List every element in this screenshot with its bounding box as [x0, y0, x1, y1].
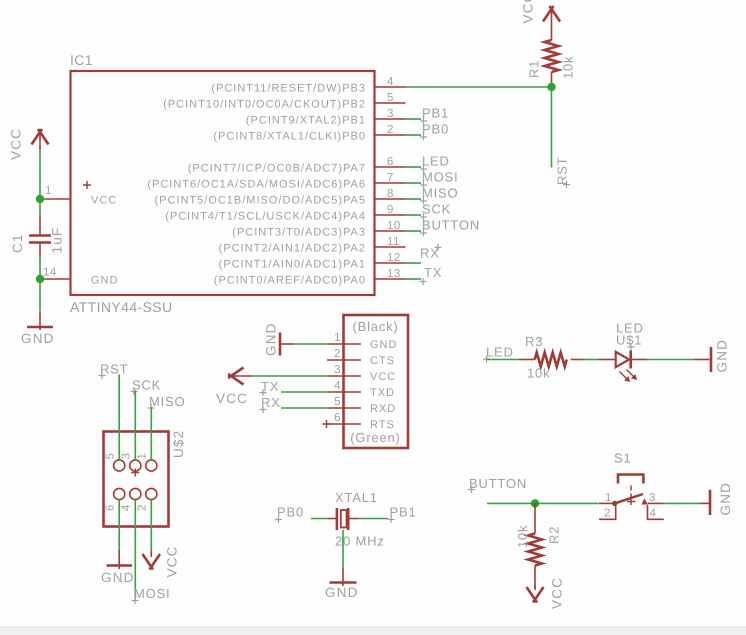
wire XTAL1 to GND: [342, 530, 344, 586]
wire pin1 junction to C1: [39, 199, 41, 235]
svg-text:2: 2: [604, 508, 611, 520]
pin 9 PA4 of IC1: [165, 204, 405, 223]
node MOSI label at U$2: [132, 586, 171, 604]
switch S1: [599, 451, 664, 520]
svg-text:3: 3: [334, 364, 341, 376]
node PB0 label at XTAL1: [275, 505, 304, 524]
connector J1 FTDI body: [344, 315, 409, 448]
svg-text:TX: TX: [261, 379, 279, 394]
svg-text:(PCINT7/ICP/OC0B/ADC7)PA7: (PCINT7/ICP/OC0B/ADC7)PA7: [188, 163, 366, 175]
svg-text:(Black): (Black): [352, 319, 398, 334]
wire R1 to junction: [551, 72, 553, 87]
ground GND at J1 pin1: [264, 322, 281, 356]
svg-text:7: 7: [387, 172, 394, 184]
wire J1 pin1 to GND: [280, 343, 327, 345]
wire LED label to R3: [487, 359, 535, 361]
svg-text:10: 10: [387, 220, 401, 232]
svg-text:MOSI: MOSI: [134, 586, 170, 601]
pin 6 of U$2: [105, 488, 125, 511]
svg-text:LED: LED: [486, 345, 514, 360]
svg-text:(PCINT5/OC1B/MISO/DO/ADC5)PA5: (PCINT5/OC1B/MISO/DO/ADC5)PA5: [154, 195, 366, 207]
wire junction down to RST: [551, 87, 553, 168]
svg-text:GND: GND: [718, 482, 733, 516]
svg-text:GND: GND: [101, 570, 135, 585]
node RST label at U$2: [99, 362, 129, 380]
svg-text:MISO: MISO: [422, 186, 458, 201]
pin 5 PB2 of IC1: [163, 92, 405, 111]
svg-text:CTS: CTS: [370, 355, 395, 367]
pin 1 of U$2: [137, 453, 157, 472]
resistor R1 10k: [527, 40, 576, 79]
pin 6 RTS of J1: [323, 412, 395, 431]
svg-text:TXD: TXD: [370, 387, 395, 399]
node MISO label at U$2: [148, 394, 186, 412]
node SCK label: [406, 202, 452, 221]
svg-text:BUTTON: BUTTON: [422, 218, 480, 233]
svg-text:RXD: RXD: [370, 403, 396, 415]
pin 1 GND of J1: [327, 332, 397, 351]
svg-text:(PCINT8/XTAL1/CLKI)PB0: (PCINT8/XTAL1/CLKI)PB0: [213, 131, 366, 143]
node BUTTON label: [468, 476, 527, 493]
node LED label: [483, 345, 514, 363]
pin 5 RXD of J1: [327, 396, 396, 415]
svg-text:S1: S1: [614, 451, 632, 466]
node RST label: [555, 157, 571, 188]
svg-text:5: 5: [334, 396, 341, 408]
pin 4 TXD of J1: [327, 380, 395, 399]
svg-text:GND: GND: [715, 339, 730, 373]
svg-text:PB1: PB1: [390, 505, 417, 520]
node RX label: [406, 244, 442, 263]
wire J1 pin4 TX: [281, 391, 327, 393]
wire U$2 pin2 to VCC: [150, 500, 152, 553]
svg-text:RST: RST: [555, 157, 570, 185]
svg-text:SCK: SCK: [422, 202, 451, 217]
IC U1 ATTINY44-SSU body: [70, 52, 375, 315]
capacitor C1 1uF: [10, 227, 65, 254]
svg-text:VCC: VCC: [521, 0, 536, 24]
wire R2 to VCC: [534, 566, 536, 589]
pin 3 of U$2: [121, 453, 141, 477]
svg-text:RST: RST: [100, 362, 128, 377]
svg-text:1uF: 1uF: [50, 227, 65, 254]
wire pin14 junction to GND: [39, 279, 41, 330]
svg-text:(PCINT0/AREF/ADC0)PA0: (PCINT0/AREF/ADC0)PA0: [214, 275, 366, 287]
node PB1 label: [406, 106, 449, 125]
LED U$1: [616, 321, 644, 383]
svg-text:4: 4: [387, 76, 394, 88]
node MISO label: [406, 186, 459, 205]
node TX label: [406, 265, 443, 285]
supply VCC at J1 pin3: [216, 368, 252, 407]
svg-text:MOSI: MOSI: [422, 170, 458, 185]
svg-text:10k: 10k: [527, 366, 550, 381]
svg-text:4: 4: [650, 508, 657, 520]
pin 13 PA0 of IC1: [214, 268, 406, 287]
node junction pin1: [36, 195, 44, 203]
ground GND below C1: [21, 327, 55, 346]
wire U$2 pin6 to GND: [118, 500, 120, 569]
pin 11 PA2 of IC1: [219, 236, 406, 255]
ground GND below U$2: [101, 566, 135, 586]
wire BUTTON to S1: [487, 502, 599, 504]
svg-text:PB0: PB0: [277, 505, 304, 520]
svg-text:10k: 10k: [515, 525, 530, 548]
svg-text:3: 3: [649, 492, 656, 504]
svg-text:RX: RX: [261, 395, 281, 410]
svg-text:ATTINY44-SSU: ATTINY44-SSU: [70, 299, 173, 315]
svg-text:1: 1: [137, 453, 149, 460]
wire S1 to GND: [664, 502, 709, 504]
svg-text:GND: GND: [370, 339, 397, 351]
node TX label at J1: [260, 379, 280, 396]
pin 4 PB3 of IC1: [211, 76, 405, 95]
pin 3 VCC of J1: [327, 364, 396, 383]
wire J1 pin5 RX: [281, 407, 327, 409]
svg-text:GND: GND: [325, 585, 359, 600]
svg-text:R1: R1: [527, 60, 542, 78]
svg-text:13: 13: [387, 268, 401, 280]
pin 2 of U$2: [137, 488, 157, 511]
ground GND right of LED: [711, 339, 730, 373]
pin 1 VCC of IC1: [40, 185, 117, 207]
svg-text:5: 5: [387, 92, 394, 104]
svg-text:2: 2: [137, 504, 149, 511]
svg-text:IC1: IC1: [70, 52, 93, 68]
wire XTAL1 to PB1: [348, 518, 388, 520]
crystal XTAL1 20 MHz: [335, 490, 385, 549]
node PB1 label at XTAL1: [388, 505, 417, 524]
node LED label: [406, 154, 450, 173]
svg-text:9: 9: [387, 204, 394, 216]
wire LED U$1 to GND: [631, 359, 710, 361]
svg-text:MISO: MISO: [149, 394, 185, 409]
supply VCC below U$2: [143, 545, 180, 577]
svg-text:6: 6: [387, 156, 394, 168]
svg-text:2: 2: [387, 124, 394, 136]
svg-text:3: 3: [121, 453, 133, 460]
pin 10 PA3 of IC1: [232, 220, 405, 239]
svg-text:10k: 10k: [561, 56, 576, 79]
svg-text:(PCINT1/AIN0/ADC1)PA1: (PCINT1/AIN0/ADC1)PA1: [219, 259, 366, 271]
svg-text:3: 3: [387, 108, 394, 120]
svg-text:VCC: VCC: [216, 391, 248, 406]
bottom scrollbar strip: [0, 627, 746, 635]
wire U$2 pin5 to RST: [118, 375, 120, 461]
svg-text:R2: R2: [547, 526, 562, 544]
supply VCC top right: [521, 0, 561, 40]
svg-text:1: 1: [605, 492, 612, 504]
pin 14 GND of IC1: [40, 267, 118, 287]
svg-text:6: 6: [334, 412, 341, 424]
svg-text:VCC: VCC: [370, 371, 396, 383]
svg-text:LED: LED: [422, 154, 450, 169]
svg-text:GND: GND: [21, 331, 55, 346]
ground GND right of S1: [710, 482, 733, 516]
node PB0 label: [406, 122, 449, 141]
svg-text:C1: C1: [10, 233, 25, 253]
wire junction to R2: [534, 503, 536, 533]
svg-text:4: 4: [121, 504, 133, 511]
wire U$2 pin1 to MISO: [150, 407, 152, 460]
wire U$2 pin3 to SCK: [134, 391, 136, 461]
pin 7 PA6 of IC1: [147, 172, 405, 191]
svg-text:12: 12: [387, 252, 401, 264]
svg-text:GND: GND: [91, 275, 118, 287]
svg-text:(Green): (Green): [350, 430, 400, 445]
svg-text:(PCINT11/RESET/DW)PB3: (PCINT11/RESET/DW)PB3: [211, 83, 366, 95]
pin 2 PB0 of IC1: [213, 124, 405, 143]
wire J1 pin3 to VCC: [252, 375, 327, 377]
node RX label at J1: [260, 395, 281, 413]
connector U$2 ISP header body: [104, 430, 187, 527]
svg-text:R3: R3: [525, 334, 543, 349]
svg-text:(PCINT2/AIN1/ADC2)PA2: (PCINT2/AIN1/ADC2)PA2: [219, 243, 366, 255]
pin 3 PB1 of IC1: [246, 108, 406, 127]
node BUTTON label: [406, 218, 481, 237]
pin 8 PA5 of IC1: [154, 188, 405, 207]
svg-text:6: 6: [105, 504, 117, 511]
node junction pin14: [36, 275, 44, 283]
pin 6 PA7 of IC1: [188, 156, 406, 175]
svg-text:TX: TX: [424, 265, 442, 280]
wire VCC to pin1 junction: [39, 150, 41, 199]
pin 12 PA1 of IC1: [219, 252, 406, 271]
svg-text:VCC: VCC: [165, 545, 180, 577]
node SCK label at U$2: [131, 378, 162, 396]
wire pin4 to junction: [406, 86, 552, 88]
wire U$2 pin4 to MOSI: [134, 500, 136, 599]
supply VCC top left: [9, 128, 49, 160]
svg-text:XTAL1: XTAL1: [335, 490, 378, 505]
node junction RST: [547, 83, 555, 91]
svg-text:RTS: RTS: [370, 419, 395, 431]
svg-text:GND: GND: [264, 322, 279, 356]
resistor R2 10k: [515, 525, 562, 566]
svg-text:(PCINT9/XTAL2)PB1: (PCINT9/XTAL2)PB1: [246, 115, 366, 127]
wire R3 to LED U$1: [571, 359, 615, 361]
svg-text:VCC: VCC: [9, 128, 24, 160]
svg-text:U$1: U$1: [616, 333, 642, 348]
node MOSI label: [406, 170, 459, 189]
svg-text:SCK: SCK: [132, 378, 161, 393]
svg-text:PB0: PB0: [422, 122, 449, 137]
svg-text:2: 2: [334, 348, 341, 360]
svg-text:BUTTON: BUTTON: [469, 476, 527, 491]
svg-text:1: 1: [45, 185, 52, 197]
svg-text:(PCINT10/INT0/OC0A/CKOUT)PB2: (PCINT10/INT0/OC0A/CKOUT)PB2: [163, 99, 366, 111]
svg-text:14: 14: [43, 267, 57, 279]
pin 2 CTS of J1: [327, 348, 395, 367]
svg-text:VCC: VCC: [550, 577, 565, 609]
svg-text:5: 5: [105, 453, 117, 460]
resistor R3 10k: [525, 334, 567, 381]
svg-text:11: 11: [387, 236, 400, 248]
pin 4 of U$2: [121, 488, 141, 511]
svg-text:4: 4: [334, 380, 341, 392]
wire C1 to pin14 junction: [39, 243, 41, 280]
svg-text:(PCINT4/T1/SCL/USCK/ADC4)PA4: (PCINT4/T1/SCL/USCK/ADC4)PA4: [165, 211, 366, 223]
svg-text:U$2: U$2: [171, 430, 186, 458]
svg-text:VCC: VCC: [91, 195, 117, 207]
supply VCC below R2: [527, 577, 565, 609]
ground GND below XTAL1: [325, 583, 359, 601]
svg-text:PB1: PB1: [422, 106, 449, 121]
node junction BUTTON/R2: [531, 499, 539, 507]
svg-text:(PCINT3/T0/ADC3)PA3: (PCINT3/T0/ADC3)PA3: [232, 227, 366, 239]
svg-text:8: 8: [387, 188, 394, 200]
wire PB0 to XTAL1: [311, 518, 337, 520]
pin 5 of U$2: [105, 453, 125, 472]
svg-text:1: 1: [334, 332, 341, 344]
svg-text:(PCINT6/OC1A/SDA/MOSI/ADC6)PA6: (PCINT6/OC1A/SDA/MOSI/ADC6)PA6: [147, 179, 366, 191]
